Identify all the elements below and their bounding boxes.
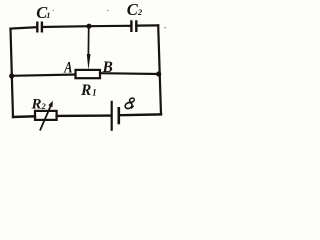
- wire bottom-middle segment: [57, 114, 111, 117]
- wire left vertical: [11, 29, 14, 117]
- battery cell (EMF source): [112, 101, 119, 131]
- wire middle-left segment: [12, 75, 76, 76]
- wire bottom-right segment: [120, 113, 161, 116]
- rheostat R2 arrow: [40, 101, 53, 131]
- speck right of corner: [164, 27, 166, 29]
- node junction left: [9, 73, 14, 78]
- capacitor C1: [37, 22, 42, 33]
- wire top-right segment: [89, 25, 131, 28]
- wire middle-right segment: [100, 72, 159, 75]
- node junction right: [156, 71, 161, 76]
- label EMF script-E: [124, 97, 135, 110]
- speck near C2: [107, 10, 109, 12]
- wire top-left segment: [11, 27, 38, 28]
- wiper arrow of R1: [87, 26, 91, 70]
- speck after C1 label: [53, 10, 54, 11]
- capacitor C2: [131, 20, 136, 32]
- wire top-middle segment: [42, 25, 89, 28]
- wire top corner segment: [136, 24, 158, 26]
- rheostat R2 body: [35, 111, 57, 120]
- potentiometer R1 body: [76, 70, 101, 78]
- svg-text:A: A: [63, 59, 72, 77]
- wire bottom-left segment: [13, 115, 35, 118]
- node junction top (wiper tap): [86, 24, 91, 29]
- wire right vertical: [158, 25, 161, 114]
